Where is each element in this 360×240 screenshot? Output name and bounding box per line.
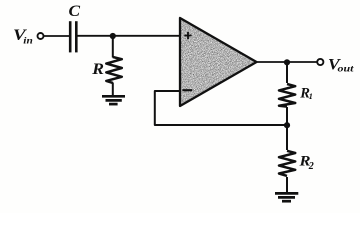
- input terminal (open circle): [38, 33, 44, 39]
- resistor R2: [279, 151, 295, 176]
- wire: node C down to R2: [286, 125, 288, 150]
- label Vin: [13, 25, 33, 46]
- wire: R1 to node C: [286, 107, 288, 125]
- wire: feedback from - input to R1/R2 junction: [155, 91, 287, 125]
- svg-text:in: in: [23, 36, 33, 46]
- wire: op-amp output to Vout terminal: [257, 61, 318, 63]
- node C (R1/R2 junction dot): [284, 122, 290, 128]
- svg-text:1: 1: [309, 91, 313, 101]
- resistor R: [106, 57, 122, 83]
- wire: node A down to resistor R: [112, 36, 114, 58]
- ground (below R2): [275, 193, 298, 201]
- wire: R2 to ground: [286, 177, 288, 193]
- node A (junction dot at R top): [110, 33, 116, 39]
- op-amp - input marking: [183, 89, 193, 91]
- ground (below R): [102, 96, 125, 104]
- label Vout: [328, 55, 355, 74]
- svg-text:out: out: [338, 63, 355, 74]
- output terminal (open circle): [317, 59, 323, 65]
- svg-text:2: 2: [308, 161, 314, 172]
- wire: input terminal to capacitor: [44, 35, 69, 37]
- label R2: [298, 153, 313, 172]
- node B (output junction dot): [284, 59, 290, 65]
- wire: output node down to R1: [286, 62, 288, 83]
- wire: resistor R to ground: [112, 83, 114, 97]
- resistor R1: [279, 84, 295, 107]
- svg-text:R: R: [91, 60, 104, 78]
- svg-text:C: C: [69, 2, 81, 20]
- op-amp + input marking: [184, 32, 191, 39]
- capacitor C: [70, 21, 76, 52]
- op-amp U1 (triangle): [176, 14, 262, 110]
- wire: capacitor to op-amp + input: [78, 35, 181, 37]
- label R1: [299, 85, 313, 101]
